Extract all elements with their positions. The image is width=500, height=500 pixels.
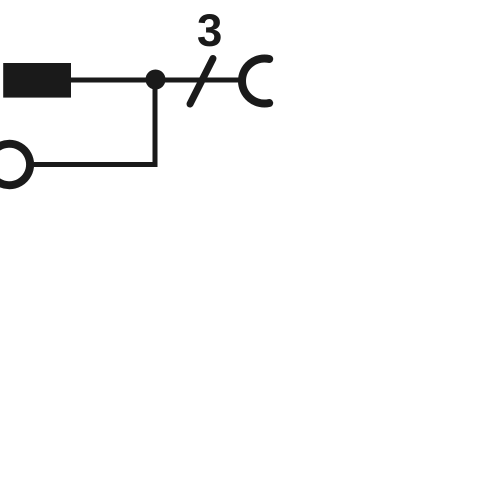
wire: junction down and left to connector J1 (34, 80, 155, 165)
label 3 (198, 14, 221, 46)
bus slash (3 conductors) (190, 59, 213, 105)
junction node (146, 70, 166, 90)
component block (black box) (3, 63, 71, 98)
connector J1 (left, socket) (0, 144, 30, 185)
wire: box to connector J2 (68, 78, 242, 83)
connector J2 (right, socket) (242, 59, 269, 104)
